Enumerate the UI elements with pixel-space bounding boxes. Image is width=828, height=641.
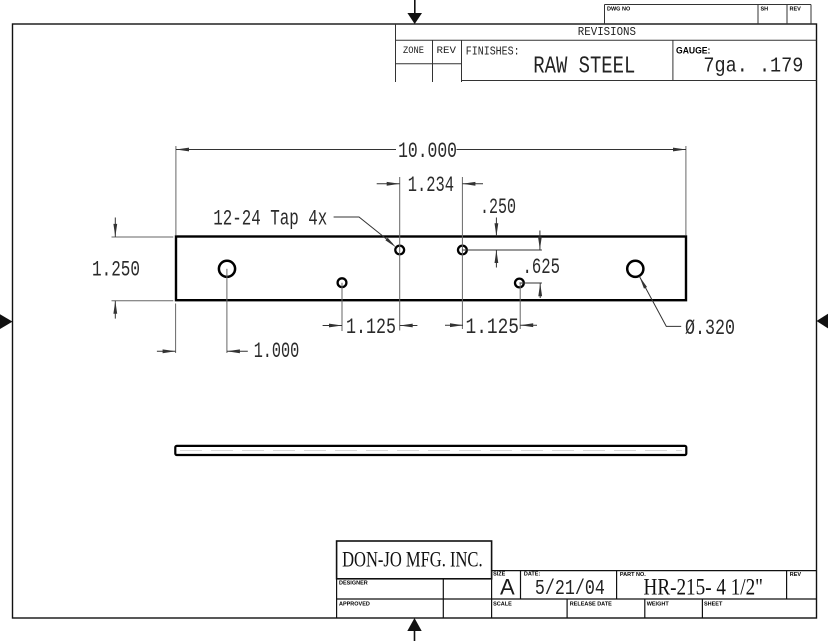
svg-text:10.000: 10.000 [398, 138, 457, 164]
top center mark arrow [407, 0, 422, 24]
svg-text:RELEASE DATE: RELEASE DATE [570, 601, 612, 607]
svg-text:DON-JO MFG. INC.: DON-JO MFG. INC. [342, 547, 483, 572]
title block lines [337, 571, 817, 618]
.625 lower arrow [539, 283, 541, 298]
right center mark arrow [817, 314, 828, 329]
svg-text:SHEET: SHEET [704, 601, 723, 607]
bottom center mark arrow [407, 618, 421, 641]
svg-text:ZONE: ZONE [403, 45, 424, 57]
svg-text:HR-215- 4 1/2": HR-215- 4 1/2" [644, 574, 764, 599]
svg-text:SH: SH [761, 7, 769, 13]
svg-text:Ø.320: Ø.320 [685, 315, 735, 341]
svg-text:1.125: 1.125 [346, 314, 396, 340]
svg-text:1.234: 1.234 [408, 172, 454, 198]
center line through upper-left tap hole [399, 177, 401, 331]
svg-text:REVISIONS: REVISIONS [578, 25, 636, 39]
1.250 extension line top [112, 236, 174, 238]
svg-text:WEIGHT: WEIGHT [647, 601, 670, 607]
side view centerline (faint) [180, 450, 682, 452]
plate front view outline [176, 237, 686, 301]
tap hole upper-right [458, 246, 467, 255]
1.125 right dim arrows [445, 324, 537, 326]
tap hole lower-right [515, 279, 524, 288]
hole large left [219, 261, 235, 277]
svg-text:1.250: 1.250 [92, 256, 140, 282]
extension line left of 10.000 [175, 146, 177, 235]
company box DON-JO [337, 541, 492, 579]
svg-text:REV: REV [790, 7, 802, 13]
lower-right hole center line horizontal [519, 282, 542, 284]
svg-text:SCALE: SCALE [493, 602, 512, 608]
svg-text:1.125: 1.125 [466, 314, 520, 340]
center line below lower-right tap hole [519, 283, 521, 329]
svg-text:DESIGNER: DESIGNER [339, 581, 368, 587]
svg-text:5/21/04: 5/21/04 [535, 578, 605, 601]
svg-text:A: A [500, 575, 515, 600]
svg-text:PART NO.: PART NO. [620, 572, 646, 578]
extension line right of 10.000 [685, 146, 687, 235]
upper hole center line horizontal [462, 249, 542, 251]
.250 lower arrow [495, 250, 497, 268]
.250 upper arrow [495, 218, 497, 237]
svg-text:RAW STEEL: RAW STEEL [533, 54, 635, 81]
center line through upper-right tap hole [461, 177, 463, 329]
svg-text:12-24 Tap 4x: 12-24 Tap 4x [213, 206, 327, 232]
left center mark arrow [0, 314, 13, 329]
center line below large left hole [226, 269, 228, 353]
svg-text:FINISHES:: FINISHES: [466, 45, 520, 59]
svg-text:.625: .625 [523, 254, 561, 280]
svg-text:GAUGE:: GAUGE: [676, 46, 710, 56]
svg-text:1.000: 1.000 [254, 338, 300, 364]
tap hole upper-left [395, 246, 404, 255]
plate side view outline [175, 446, 686, 455]
svg-text:APPROVED: APPROVED [339, 602, 370, 608]
hole large right [627, 261, 643, 277]
1.250 upper arrow [114, 218, 116, 237]
svg-text:7ga. .179: 7ga. .179 [703, 56, 803, 79]
revisions table lines [396, 24, 817, 82]
1.125 left dim arrows [323, 325, 418, 327]
tap hole lower-left [338, 278, 347, 287]
extension of plate left edge down [175, 304, 177, 354]
leader for tap callout [334, 217, 393, 244]
top strip DWG NO / SH / REV box [605, 5, 812, 25]
center line below lower-left tap hole [341, 283, 343, 331]
1.000 left arrow [157, 350, 176, 352]
dimension line 10.000 [176, 149, 686, 151]
1.000 right arrow [227, 350, 248, 352]
1.250 extension line bottom [112, 300, 174, 302]
svg-text:REV: REV [790, 572, 802, 578]
leader for hole diameter callout [639, 276, 681, 326]
dimension 1.234 arrows [377, 183, 483, 185]
svg-text:.250: .250 [480, 194, 516, 220]
.625 upper arrow [539, 231, 541, 250]
1.250 lower arrow [114, 301, 116, 319]
svg-text:DWG NO: DWG NO [607, 7, 631, 13]
svg-text:DATE:: DATE: [524, 572, 541, 578]
svg-text:REV: REV [437, 45, 457, 57]
